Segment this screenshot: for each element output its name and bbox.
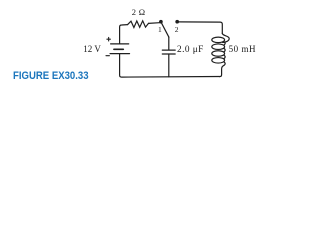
label resistor value 2 ohm: [132, 7, 146, 17]
switch blade S: [162, 23, 169, 37]
label switch position 1: [158, 25, 162, 34]
label switch position 2: [175, 25, 179, 34]
node contact 2: [175, 20, 179, 24]
label capacitor value 2.0 uF: [177, 45, 204, 55]
capacitor C plates: [162, 50, 175, 54]
battery plate middle short: [114, 48, 123, 50]
battery plate top long: [111, 43, 129, 45]
inductor L connector 3-4: [224, 55, 225, 59]
wire capacitor branch: [168, 37, 170, 77]
label figure caption: [13, 70, 89, 82]
wire bottom rail: [120, 54, 220, 77]
wire top-left rail: [120, 25, 128, 44]
inductor L coil exit wire to bottom-right corner: [220, 62, 226, 77]
resistor R 2 ohm: [128, 21, 149, 28]
inductor L connector 1-2: [224, 42, 225, 46]
inductor L loop 1: [212, 37, 225, 43]
wire contact 2 to top-right corner: [179, 22, 222, 34]
node contact 1: [159, 20, 163, 24]
label inductor value 50 mH: [229, 44, 257, 54]
battery plus sign: [107, 37, 111, 41]
inductor L loop 4: [212, 58, 225, 64]
label battery value 12 V: [83, 44, 101, 54]
inductor L connector 2-3: [224, 48, 225, 52]
wire resistor to contact 1: [149, 22, 160, 25]
inductor L coil entry: [222, 33, 229, 42]
battery minus sign: [106, 55, 109, 57]
inductor L loop 3: [212, 51, 225, 57]
battery plate bottom long: [110, 53, 129, 55]
inductor L loop 2: [212, 44, 225, 50]
